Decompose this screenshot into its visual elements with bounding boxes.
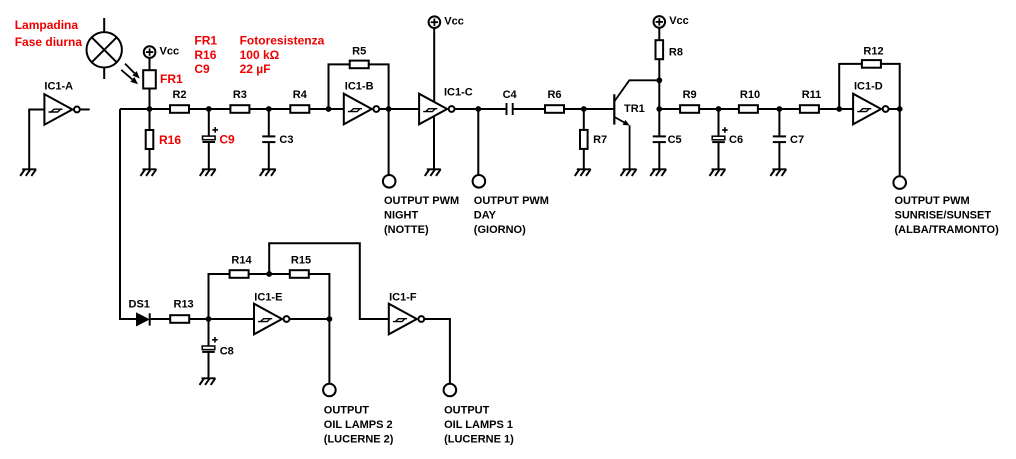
node J (C6 junction) <box>716 106 722 112</box>
label C9 <box>219 132 235 146</box>
wire C4 to R6 <box>514 108 545 110</box>
label IC1-A <box>44 80 73 92</box>
svg-text:22 µF: 22 µF <box>240 62 271 76</box>
wire Vcc to R8 <box>658 28 660 42</box>
svg-text:R5: R5 <box>352 46 366 58</box>
svg-text:TR1: TR1 <box>624 103 645 115</box>
svg-text:R3: R3 <box>233 89 247 101</box>
svg-text:R8: R8 <box>669 47 683 59</box>
svg-text:OIL LAMPS 1: OIL LAMPS 1 <box>444 419 513 431</box>
label R7 <box>593 134 607 146</box>
terminal OUTPUT OIL LAMPS 2 <box>323 384 336 397</box>
wire node N to C8 <box>208 319 210 346</box>
node C (C3 junction) <box>266 106 272 112</box>
label FR1 <box>160 72 183 86</box>
svg-text:DS1: DS1 <box>129 299 150 311</box>
svg-text:C9: C9 <box>219 132 235 146</box>
svg-text:IC1-F: IC1-F <box>389 291 417 303</box>
label C3 <box>279 134 293 146</box>
resistor R16 <box>146 130 154 149</box>
capacitor C9 (electrolytic) <box>203 127 219 142</box>
node D (IC1-B input) <box>326 106 332 112</box>
resistor R6 <box>545 105 564 113</box>
label IC1-F <box>389 291 417 303</box>
node I (C5/R9 junction) <box>656 106 662 112</box>
wire node J to C6 <box>718 109 720 136</box>
svg-text:Fotoresistenza: Fotoresistenza <box>240 33 325 47</box>
inverter IC1-D <box>853 94 888 125</box>
inverter IC1-C <box>419 94 454 125</box>
label OUTPUT PWM DAY (GIORNO) <box>474 195 549 236</box>
svg-text:FR1: FR1 <box>194 33 217 47</box>
wire bus left corner to R2 <box>120 108 170 110</box>
label R5 <box>352 46 366 58</box>
ground (C7) <box>770 169 786 176</box>
ground (C9) <box>200 169 216 176</box>
wire R13 to IC1-E input <box>189 318 254 320</box>
ground (R7) <box>575 169 591 176</box>
svg-text:R7: R7 <box>593 134 607 146</box>
lamp (Lampadina) DL symbol <box>87 18 122 79</box>
label R6 <box>547 89 561 101</box>
capacitor C8 (electrolytic) <box>202 337 218 352</box>
photoresistor FR1 <box>143 70 156 88</box>
wire node C to C3 <box>268 109 270 136</box>
node N (R13/C8/R14 junction) <box>206 316 212 322</box>
ground (C3) <box>260 169 276 176</box>
node B (C9 junction) <box>206 106 212 112</box>
power Vcc (above R8) <box>654 15 689 27</box>
wire R5 feedback left leg <box>329 64 350 109</box>
svg-text:R14: R14 <box>231 255 252 267</box>
wire R4 to IC1-B input <box>309 108 344 110</box>
svg-text:Vcc: Vcc <box>444 16 464 28</box>
label C6 <box>729 134 743 146</box>
label C7 <box>790 134 804 146</box>
label R4 <box>293 89 308 101</box>
resistor R7 <box>580 130 588 149</box>
label C5 <box>668 134 682 146</box>
svg-text:Fase diurna: Fase diurna <box>15 35 83 49</box>
wire R6 to TR1 base <box>564 108 613 110</box>
svg-text:IC1-B: IC1-B <box>345 80 374 92</box>
svg-text:Vcc: Vcc <box>669 15 689 27</box>
capacitor C6 (electrolytic) <box>712 127 728 142</box>
light arrows onto FR1 <box>121 64 140 85</box>
svg-text:R2: R2 <box>172 89 186 101</box>
svg-text:IC1-D: IC1-D <box>854 80 883 92</box>
terminal OUTPUT OIL LAMPS 1 <box>444 384 457 397</box>
wire R11 to IC1-D input <box>819 108 853 110</box>
wire IC1-B output <box>379 108 419 110</box>
wire C7 to ground <box>778 142 780 169</box>
label DS1 <box>129 299 150 311</box>
wire IC1-C to ground <box>433 115 435 169</box>
transistor TR1 (NPN) <box>614 80 659 169</box>
wire C3 to ground <box>268 142 270 169</box>
wire node P to OIL LAMPS 2 terminal <box>328 319 330 384</box>
svg-text:R4: R4 <box>293 89 308 101</box>
svg-text:OUTPUT: OUTPUT <box>444 404 490 416</box>
resistor R11 <box>800 105 819 113</box>
svg-text:C9: C9 <box>194 62 210 76</box>
ground (C6) <box>710 169 726 176</box>
ground (C8) <box>200 378 216 385</box>
legend designators FR1 R16 C9 <box>194 33 217 76</box>
ground (C5) <box>650 169 666 176</box>
svg-text:IC1-C: IC1-C <box>444 86 473 98</box>
label C4 <box>503 89 518 101</box>
svg-text:C6: C6 <box>729 134 743 146</box>
legend values Fotoresistenza 100 k&#937; 22 &#181;F <box>240 33 325 76</box>
wire IC1-A output stub <box>80 108 90 110</box>
inverter IC1-F <box>389 304 424 335</box>
resistor R13 <box>170 315 189 323</box>
label R3 <box>233 89 247 101</box>
ground (R16) <box>141 169 157 176</box>
wire R16 to ground <box>149 149 151 169</box>
node P (IC1-E output) <box>327 316 333 322</box>
label IC1-E <box>254 291 282 303</box>
svg-text:R12: R12 <box>863 46 883 58</box>
wire R9 to R10 <box>699 108 739 110</box>
wire IC1-F output <box>424 319 450 384</box>
svg-text:R11: R11 <box>802 89 822 101</box>
node M (IC1-D output) <box>897 106 903 112</box>
svg-text:R13: R13 <box>174 299 194 311</box>
terminal OUTPUT PWM SUNRISE/SUNSET <box>893 176 906 189</box>
svg-text:(ALBA/TRAMONTO): (ALBA/TRAMONTO) <box>895 224 1000 236</box>
wire R3 to R4 <box>249 108 290 110</box>
node A (FR1/R16 junction) <box>147 106 153 112</box>
label OUTPUT PWM NIGHT (NOTTE) <box>384 195 459 236</box>
node G (R7/TR1 base) <box>581 106 587 112</box>
wire node F to DAY terminal <box>477 109 479 175</box>
node O (R14/R15 junction) <box>266 271 272 277</box>
svg-text:Vcc: Vcc <box>160 45 180 57</box>
wire R12 feedback right leg <box>881 64 900 109</box>
node F (DAY output junction) <box>475 106 481 112</box>
label R9 <box>683 89 697 101</box>
wire R7 to ground <box>583 149 585 170</box>
resistor R9 <box>680 105 699 113</box>
label Lampadina / Fase diurna <box>15 18 83 49</box>
label OUTPUT PWM SUNRISE/SUNSET (ALBA/TRAMONTO) <box>895 195 1000 236</box>
label IC1-C <box>444 86 473 98</box>
svg-text:IC1-A: IC1-A <box>44 80 73 92</box>
inverter IC1-B <box>344 94 379 125</box>
svg-text:OUTPUT: OUTPUT <box>324 404 370 416</box>
terminal OUTPUT PWM NIGHT <box>383 175 396 188</box>
wire C8 to ground <box>208 352 210 378</box>
wire IC1-C output <box>455 108 506 110</box>
wire node B to C9 <box>208 109 210 136</box>
power Vcc (above IC1-C) <box>429 16 464 29</box>
ground (IC1-A input) <box>20 169 36 176</box>
wire IC1-E output <box>289 318 329 320</box>
diode DS1 <box>137 313 150 326</box>
terminal OUTPUT PWM DAY <box>473 175 486 188</box>
svg-text:R15: R15 <box>291 255 311 267</box>
wire R14 to R15 <box>249 273 290 275</box>
resistor R14 <box>230 270 249 278</box>
node H (collector) <box>656 77 662 83</box>
svg-text:DAY: DAY <box>474 209 497 221</box>
wire DS1 to R13 <box>151 318 171 320</box>
label R2 <box>172 89 186 101</box>
svg-text:C4: C4 <box>503 89 518 101</box>
label IC1-D <box>854 80 883 92</box>
label OUTPUT OIL LAMPS 2 (LUCERNE 2) <box>324 404 394 445</box>
wire R8 to bus (collector rail) <box>658 58 660 135</box>
wire C5 to ground <box>658 142 660 169</box>
capacitor C7 <box>773 136 786 142</box>
label R13 <box>174 299 194 311</box>
svg-text:R16: R16 <box>194 48 216 62</box>
label C8 <box>220 346 234 358</box>
resistor R4 <box>290 105 309 113</box>
wire C9 to ground <box>208 143 210 170</box>
resistor R5 <box>350 61 369 69</box>
wire node A to R16 <box>149 109 151 130</box>
wire IC1-A input to ground <box>29 109 44 169</box>
svg-text:R6: R6 <box>547 89 561 101</box>
wire node M to SUNRISE terminal <box>899 109 901 176</box>
svg-text:100 kΩ: 100 kΩ <box>240 48 280 62</box>
label R11 <box>802 89 822 101</box>
wire left rail (bus to bottom row) <box>120 109 137 319</box>
label R12 <box>863 46 883 58</box>
svg-text:OUTPUT PWM: OUTPUT PWM <box>474 195 549 207</box>
wire FR1 to node A <box>149 89 151 110</box>
label R14 <box>231 255 252 267</box>
svg-text:C3: C3 <box>279 134 293 146</box>
power Vcc (above FR1) <box>144 45 179 58</box>
node K (C7 junction) <box>777 106 783 112</box>
svg-text:C8: C8 <box>220 346 234 358</box>
svg-text:SUNRISE/SUNSET: SUNRISE/SUNSET <box>895 209 992 221</box>
svg-text:(NOTTE): (NOTTE) <box>384 224 429 236</box>
capacitor C5 <box>653 136 666 142</box>
svg-text:C7: C7 <box>790 134 804 146</box>
label TR1 <box>624 103 645 115</box>
wire R10 to R11 <box>758 108 800 110</box>
label OUTPUT OIL LAMPS 1 (LUCERNE 1) <box>444 404 514 445</box>
ground (IC1-C) <box>425 169 441 176</box>
svg-text:(GIORNO): (GIORNO) <box>474 224 526 236</box>
label R8 <box>669 47 683 59</box>
op-amp inverter IC1-A <box>44 94 79 125</box>
inverter IC1-E <box>254 304 289 335</box>
resistor R3 <box>230 105 249 113</box>
wire Vcc to IC1-C <box>433 28 435 103</box>
svg-text:(LUCERNE 1): (LUCERNE 1) <box>444 434 514 446</box>
capacitor C3 <box>262 136 275 142</box>
svg-text:(LUCERNE 2): (LUCERNE 2) <box>324 434 394 446</box>
capacitor C4 (series) <box>507 103 513 115</box>
resistor R8 <box>656 40 664 59</box>
resistor R10 <box>739 105 758 113</box>
wire node G to R7 <box>583 109 585 130</box>
wire IC1-B output to NIGHT terminal <box>388 109 390 175</box>
svg-text:Lampadina: Lampadina <box>15 18 79 32</box>
wire Vcc to FR1 <box>149 58 151 70</box>
label IC1-B <box>345 80 374 92</box>
svg-text:OIL LAMPS 2: OIL LAMPS 2 <box>324 419 393 431</box>
wire node O to IC1-F input <box>269 243 389 319</box>
wire node N up to R14 <box>209 274 230 319</box>
resistor R12 <box>862 60 881 68</box>
wire IC1-D output <box>889 108 900 110</box>
wire R15 to IC1-E output <box>309 274 330 319</box>
label R15 <box>291 255 311 267</box>
svg-text:R10: R10 <box>740 89 760 101</box>
svg-text:R16: R16 <box>159 133 181 147</box>
ground (TR1 emitter) <box>621 169 637 176</box>
label R10 <box>740 89 760 101</box>
svg-text:NIGHT: NIGHT <box>384 209 419 221</box>
resistor R2 <box>170 105 189 113</box>
svg-text:OUTPUT PWM: OUTPUT PWM <box>384 195 459 207</box>
svg-text:IC1-E: IC1-E <box>254 291 282 303</box>
wire R5 feedback right leg <box>369 64 389 109</box>
node E (IC1-B output) <box>386 106 392 112</box>
wire C6 to ground <box>718 143 720 170</box>
node L (IC1-D input) <box>836 106 842 112</box>
wire R12 feedback left leg <box>839 64 862 109</box>
svg-text:R9: R9 <box>683 89 697 101</box>
wire node K to C7 <box>778 109 780 136</box>
svg-text:C5: C5 <box>668 134 682 146</box>
wire R2 to R3 <box>189 108 230 110</box>
resistor R15 <box>290 270 309 278</box>
label R16 <box>159 133 181 147</box>
wire node I to R9 <box>659 108 680 110</box>
svg-text:OUTPUT PWM: OUTPUT PWM <box>895 195 970 207</box>
svg-text:FR1: FR1 <box>160 72 183 86</box>
